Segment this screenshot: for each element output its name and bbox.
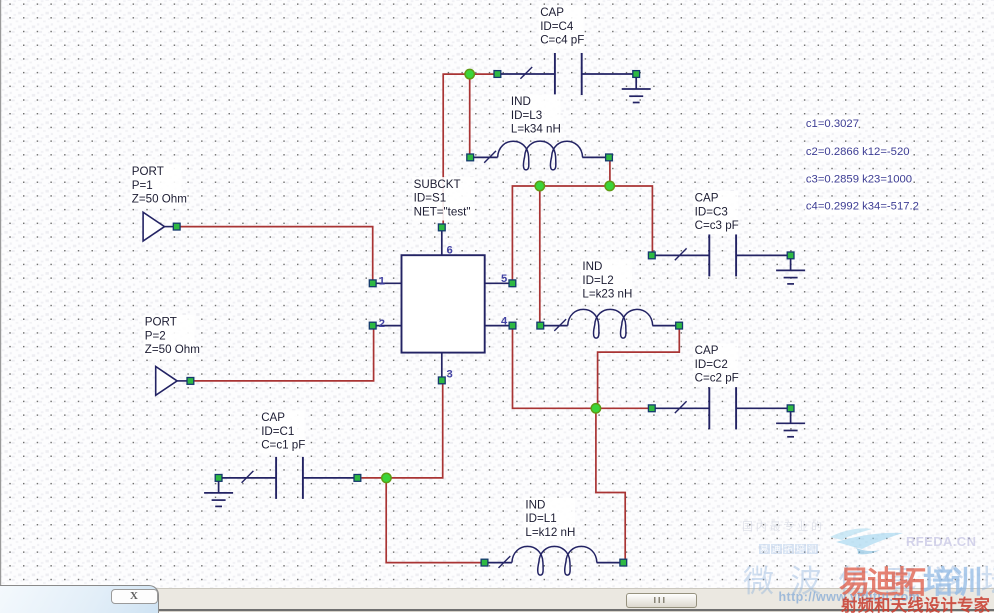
svg-text:PORT: PORT <box>145 316 177 329</box>
svg-text:1: 1 <box>379 276 385 288</box>
node C junction <box>535 181 544 190</box>
svg-text:2: 2 <box>379 318 385 330</box>
schematic tab button <box>111 589 158 604</box>
bottom-left tab corner panel <box>0 585 159 613</box>
svg-text:CAP: CAP <box>695 344 719 357</box>
node B junction <box>605 181 614 190</box>
inductor L1 <box>481 498 627 575</box>
svg-text:3: 3 <box>447 368 453 380</box>
variable c2 k12 <box>804 145 904 161</box>
svg-text:6: 6 <box>447 245 453 257</box>
node A junction <box>465 69 474 78</box>
port P1 <box>130 164 187 241</box>
wire node C down to L2 <box>539 186 541 322</box>
svg-text:c3=0.2859 k23=1000: c3=0.2859 k23=1000 <box>806 173 912 185</box>
watermark big red brand <box>839 557 979 602</box>
node E junction <box>382 473 391 482</box>
svg-text:ID=C1: ID=C1 <box>261 425 294 438</box>
bottom tab / scrollbar bar <box>0 588 994 610</box>
wire port1 to pin1 <box>181 227 373 280</box>
watermark big blue chars <box>743 556 994 601</box>
watermark RFEDA.CN <box>906 534 976 549</box>
inductor L2 <box>537 259 683 338</box>
svg-text:C=c4 pF: C=c4 pF <box>540 34 584 47</box>
capacitor C1 <box>215 410 361 499</box>
svg-text:4: 4 <box>501 316 508 328</box>
svg-text:CAP: CAP <box>261 411 285 424</box>
wire port2 to pin2 <box>194 330 373 381</box>
svg-text:C=c2 pF: C=c2 pF <box>695 372 739 385</box>
svg-text:L=k23 nH: L=k23 nH <box>582 288 632 301</box>
variable c1 <box>804 116 858 132</box>
wire node A down to L3 <box>469 74 471 153</box>
svg-text:CAP: CAP <box>695 192 719 205</box>
svg-text:ID=L1: ID=L1 <box>525 512 556 525</box>
window left border <box>0 0 1 590</box>
watermark small blue blocks <box>759 543 818 555</box>
watermark url <box>779 590 921 604</box>
inductor L3 <box>467 94 613 170</box>
svg-text:IND: IND <box>511 95 531 108</box>
wire node D to L1 right <box>596 413 625 563</box>
node D junction <box>591 404 600 413</box>
svg-text:P=1: P=1 <box>132 179 153 192</box>
ground for C2 <box>776 412 805 437</box>
horizontal scrollbar thumb <box>626 593 697 608</box>
wire node E to pin3 <box>391 384 443 478</box>
port P2 <box>143 315 200 395</box>
svg-text:IND: IND <box>582 260 602 273</box>
capacitor C4 <box>494 5 640 95</box>
svg-text:IND: IND <box>525 498 545 511</box>
variable c4 k34 <box>804 199 913 215</box>
svg-text:Z=50 Ohm: Z=50 Ohm <box>132 193 187 206</box>
svg-text:ID=C4: ID=C4 <box>540 20 574 33</box>
watermark small gray text <box>742 518 825 534</box>
svg-text:SUBCKT: SUBCKT <box>414 178 461 191</box>
svg-text:L=k34 nH: L=k34 nH <box>511 123 561 136</box>
capacitor C3 <box>648 191 794 277</box>
svg-text:c2=0.2866 k12=-520: c2=0.2866 k12=-520 <box>806 146 910 158</box>
svg-text:C=c1 pF: C=c1 pF <box>261 439 305 452</box>
wire pin4 to node D <box>513 330 592 409</box>
svg-text:ID=C2: ID=C2 <box>695 358 728 371</box>
ground for C4 <box>622 78 651 103</box>
svg-text:ID=S1: ID=S1 <box>414 192 447 205</box>
svg-text:PORT: PORT <box>132 165 164 178</box>
wire bus pin5 to C3 <box>512 186 652 280</box>
wire node E to L1 left <box>386 482 480 563</box>
watermark swoosh logo <box>820 523 908 555</box>
ground for C3 <box>776 259 805 284</box>
svg-text:NET="test": NET="test" <box>414 205 471 218</box>
wire node D to C2 <box>601 407 649 409</box>
ground for C1 <box>204 481 233 506</box>
svg-text:5: 5 <box>501 273 507 285</box>
svg-text:P=2: P=2 <box>145 329 166 342</box>
subcircuit S1 <box>369 177 516 384</box>
wire node A to pin6 <box>443 74 470 223</box>
svg-text:ID=L3: ID=L3 <box>511 109 542 122</box>
svg-text:ID=L2: ID=L2 <box>582 274 613 287</box>
wire L3 to node B <box>609 161 611 186</box>
variable c3 k23 <box>804 172 908 188</box>
svg-text:Z=50 Ohm: Z=50 Ohm <box>145 343 200 356</box>
svg-text:c1=0.3027: c1=0.3027 <box>806 118 859 130</box>
wire node A to C4 <box>474 73 494 75</box>
svg-text:C=c3 pF: C=c3 pF <box>695 219 739 232</box>
wire C1 to node E <box>362 477 387 479</box>
svg-text:c4=0.2992 k34=-517.2: c4=0.2992 k34=-517.2 <box>806 201 919 213</box>
svg-text:CAP: CAP <box>540 6 564 19</box>
watermark red slogan <box>841 592 990 616</box>
svg-text:ID=C3: ID=C3 <box>695 205 728 218</box>
wire L2 to node D <box>598 329 680 403</box>
svg-text:L=k12 nH: L=k12 nH <box>525 526 575 539</box>
capacitor C2 <box>648 343 794 429</box>
